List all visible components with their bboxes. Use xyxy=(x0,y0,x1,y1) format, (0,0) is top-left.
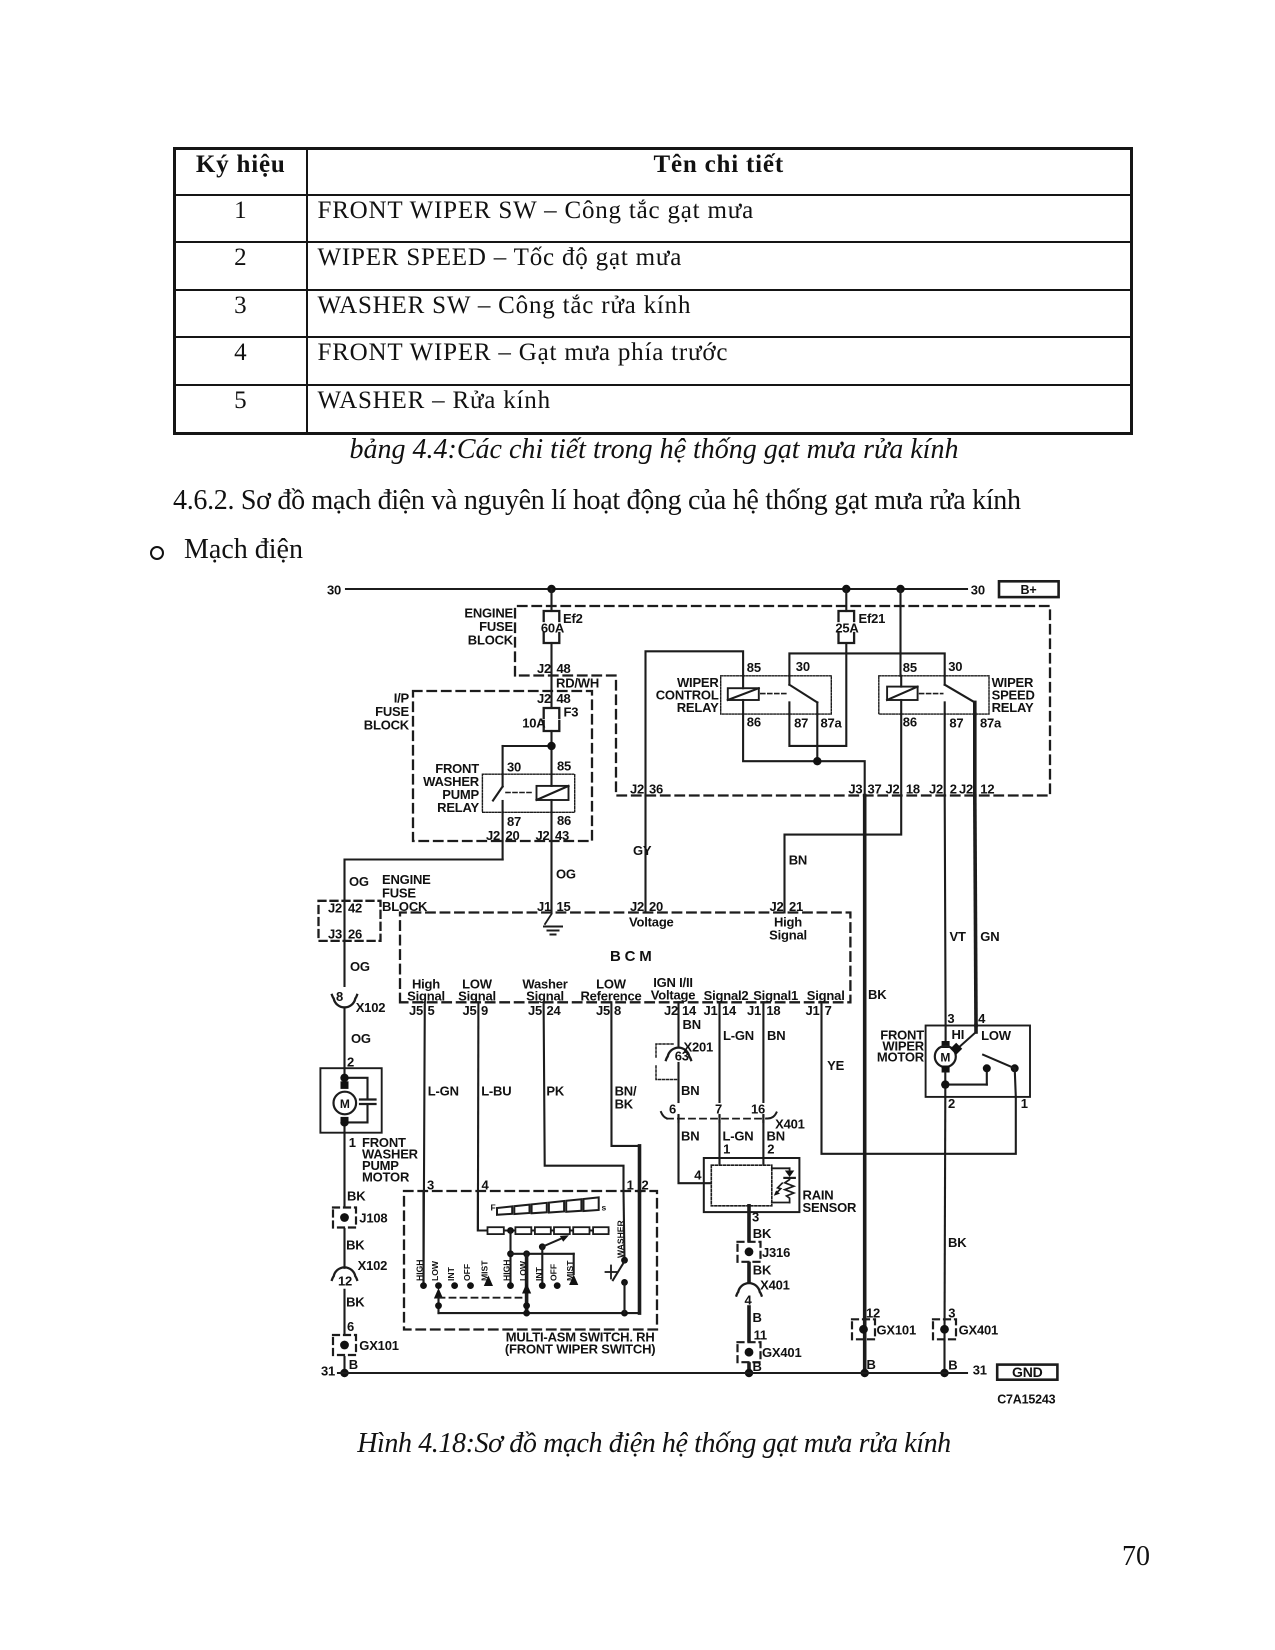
svg-text:86: 86 xyxy=(747,715,761,730)
svg-text:2: 2 xyxy=(948,1096,955,1111)
connector X401 pin 4 xyxy=(736,1278,789,1308)
wire BK pump motor pin 1 to J108 xyxy=(345,1133,367,1206)
splice GX401 right xyxy=(933,1319,998,1339)
svg-text:42: 42 xyxy=(348,901,362,916)
svg-text:X401: X401 xyxy=(760,1278,790,1293)
BCM pin J1-18 Signal1 xyxy=(747,988,798,1018)
svg-text:86: 86 xyxy=(557,813,571,828)
svg-text:J2: J2 xyxy=(929,782,943,797)
BCM pin J5-8 LOW Reference xyxy=(580,977,641,1019)
svg-text:HIGH: HIGH xyxy=(502,1260,512,1281)
washer switch label xyxy=(616,1219,626,1258)
svg-text:RELAY: RELAY xyxy=(677,700,719,715)
svg-text:Signal: Signal xyxy=(807,988,845,1003)
svg-text:OG: OG xyxy=(350,959,370,974)
wiper arm blade with arrow xyxy=(539,1235,569,1250)
svg-text:J108: J108 xyxy=(359,1211,387,1226)
engine fuse block (upper) dashed outline xyxy=(464,606,1050,796)
svg-text:MOTOR: MOTOR xyxy=(877,1050,925,1065)
wire speed relay 86 to J2-18 xyxy=(900,714,902,795)
svg-text:31: 31 xyxy=(973,1363,987,1378)
svg-text:36: 36 xyxy=(649,782,663,797)
svg-text:4: 4 xyxy=(978,1011,986,1026)
caption table xyxy=(0,434,1275,466)
table: parts list xyxy=(173,147,1133,435)
multi-asm switch dashed outline xyxy=(404,1191,657,1357)
svg-text:87: 87 xyxy=(794,716,808,731)
fuse Ef2 60A xyxy=(541,611,583,643)
pin J2-21 High Signal xyxy=(769,899,807,943)
svg-text:1: 1 xyxy=(1021,1096,1028,1111)
pin J3-37 xyxy=(848,782,881,797)
svg-text:4: 4 xyxy=(482,1178,490,1193)
svg-text:GND: GND xyxy=(1012,1364,1043,1380)
GND terminal box xyxy=(997,1364,1057,1380)
svg-text:J2: J2 xyxy=(486,828,500,843)
svg-text:12: 12 xyxy=(980,782,994,797)
svg-text:5: 5 xyxy=(428,1003,435,1018)
connector X201 pin 63 xyxy=(656,1040,713,1080)
svg-text:B: B xyxy=(753,1359,762,1374)
bullet item xyxy=(150,546,164,560)
wire BN J1-18 to rain sensor pin 2 xyxy=(763,1002,785,1165)
pin J2-36 xyxy=(630,782,663,797)
svg-text:GN: GN xyxy=(980,929,999,944)
B+ terminal box xyxy=(999,581,1059,597)
svg-text:6: 6 xyxy=(347,1319,354,1334)
wires washer relay 87/86 to J2-20 J2-43 xyxy=(486,812,569,912)
wiper speed relay xyxy=(879,659,1035,731)
svg-text:LOW: LOW xyxy=(981,1028,1012,1043)
left OFF contact xyxy=(467,1282,474,1289)
fuse F3 10A xyxy=(522,705,578,732)
BCM pin J1-7 Signal xyxy=(805,988,844,1018)
connector X401 row pins 6 7 16 xyxy=(661,1102,805,1132)
wire B GX401 to ground bus right xyxy=(945,1340,958,1373)
svg-text:12: 12 xyxy=(338,1274,352,1289)
svg-text:48: 48 xyxy=(557,661,571,676)
svg-text:B: B xyxy=(753,1310,762,1325)
junction on bus to Ef2 xyxy=(547,585,555,593)
left INT contact xyxy=(451,1282,458,1289)
svg-text:LOW: LOW xyxy=(518,1260,528,1281)
svg-text:B: B xyxy=(867,1357,876,1372)
svg-text:J5: J5 xyxy=(462,1003,476,1018)
pin J2-18 xyxy=(885,782,920,797)
svg-text:J2: J2 xyxy=(959,782,973,797)
svg-text:B: B xyxy=(349,1357,358,1372)
junction left chain ground bus xyxy=(340,1369,348,1377)
svg-text:20: 20 xyxy=(506,828,520,843)
diagram id C7A15243 xyxy=(997,1393,1055,1407)
node 31 / GND bus xyxy=(321,1363,987,1379)
svg-text:OFF: OFF xyxy=(462,1264,472,1281)
svg-text:BN: BN xyxy=(681,1129,699,1144)
splice GX101 on BK wire xyxy=(852,1306,916,1373)
svg-text:Signal2: Signal2 xyxy=(704,988,749,1003)
pin J2-2 xyxy=(929,782,957,797)
svg-text:87: 87 xyxy=(949,716,963,731)
svg-text:15: 15 xyxy=(557,899,571,914)
svg-text:GY: GY xyxy=(633,843,652,858)
svg-text:BK: BK xyxy=(615,1097,634,1112)
svg-text:J2: J2 xyxy=(630,899,644,914)
front wiper motor xyxy=(877,1011,1030,1111)
pin J1-15 with ground symbol xyxy=(537,899,571,935)
svg-text:24: 24 xyxy=(547,1003,562,1018)
switch pin 2 label xyxy=(642,1178,649,1193)
svg-text:8: 8 xyxy=(336,989,343,1004)
svg-text:18: 18 xyxy=(766,1003,780,1018)
svg-text:MOTOR: MOTOR xyxy=(362,1170,410,1185)
junction cap bottom xyxy=(340,1118,348,1126)
svg-text:8: 8 xyxy=(614,1003,621,1018)
wire F3 to washer relay pins 30/85 xyxy=(503,731,552,774)
svg-text:BK: BK xyxy=(868,987,887,1002)
svg-text:Voltage: Voltage xyxy=(651,988,696,1003)
svg-text:6: 6 xyxy=(669,1102,676,1117)
switch pin 1 label xyxy=(627,1178,634,1193)
svg-text:RELAY: RELAY xyxy=(992,700,1034,715)
svg-text:9: 9 xyxy=(481,1003,488,1018)
wire B GX101 to ground bus left xyxy=(345,1357,358,1373)
switch pin 3 wire and HIGH contact xyxy=(420,1178,434,1290)
svg-text:OG: OG xyxy=(351,1031,371,1046)
svg-text:1: 1 xyxy=(349,1135,356,1150)
contact pad rail xyxy=(488,1227,609,1234)
wire L-BU J5-9 to switch pin 4 xyxy=(478,1002,512,1230)
wire speed relay 87 to J2-2 xyxy=(944,714,946,795)
svg-text:85: 85 xyxy=(557,759,571,774)
svg-text:L-GN: L-GN xyxy=(723,1028,754,1043)
wire L-GN J1-14 to rain sensor pin 1 xyxy=(720,1002,754,1165)
wire BK X102-12 to GX101 xyxy=(345,1290,366,1334)
junction right chain ground bus xyxy=(940,1369,948,1377)
wire BN X201 to X401 pin 6 xyxy=(679,1063,700,1102)
svg-text:87a: 87a xyxy=(821,716,843,731)
svg-text:INT: INT xyxy=(446,1266,456,1281)
svg-text:J2: J2 xyxy=(328,901,342,916)
wire OG washer relay 87 to washer pump motor xyxy=(345,860,503,987)
svg-text:J2: J2 xyxy=(535,828,549,843)
svg-text:30: 30 xyxy=(327,583,341,598)
svg-text:J5: J5 xyxy=(596,1003,610,1018)
svg-text:86: 86 xyxy=(903,715,917,730)
wire bus to fuse Ef2 xyxy=(550,589,552,611)
figure caption xyxy=(0,1428,1275,1460)
BCM pin J5-5 High Signal xyxy=(407,977,445,1019)
svg-text:10A: 10A xyxy=(522,716,546,731)
wire BK J316 to X401 pin 4 xyxy=(749,1263,772,1282)
svg-text:BN: BN xyxy=(683,1017,701,1032)
svg-text:3: 3 xyxy=(947,1011,954,1026)
svg-text:2: 2 xyxy=(767,1142,774,1157)
svg-text:3: 3 xyxy=(427,1178,434,1193)
BCM pin J5-9 LOW Signal xyxy=(458,977,496,1019)
svg-text:BN: BN xyxy=(789,853,807,868)
front washer pump relay xyxy=(423,759,575,830)
svg-text:J2: J2 xyxy=(769,899,783,914)
splice GX401 center xyxy=(738,1342,802,1362)
svg-text:J2: J2 xyxy=(664,1003,678,1018)
svg-text:63: 63 xyxy=(675,1049,689,1064)
svg-text:(FRONT WIPER SWITCH): (FRONT WIPER SWITCH) xyxy=(505,1342,656,1357)
front washer pump motor xyxy=(320,1068,418,1184)
wire RD/WH J2-48 to fuse F3 xyxy=(537,676,599,709)
pin J2-20 Voltage xyxy=(629,899,674,930)
wire bus to speed relay 85 xyxy=(899,589,901,676)
wiring diagram xyxy=(0,560,1275,1420)
center OFF contact xyxy=(554,1282,561,1289)
switch pin 4 wire to cam follower rail xyxy=(478,1178,490,1231)
center MIST contact xyxy=(569,1254,578,1285)
BCM pin J2-14 IGN I/II Voltage xyxy=(651,975,697,1018)
svg-text:HI: HI xyxy=(952,1027,965,1042)
engine fuse block (left connector box) dashed outline xyxy=(319,872,432,942)
svg-text:18: 18 xyxy=(906,782,920,797)
splice J108 xyxy=(333,1208,387,1228)
svg-text:M: M xyxy=(940,1051,950,1065)
svg-text:11: 11 xyxy=(754,1328,767,1343)
svg-text:J1: J1 xyxy=(537,899,551,914)
svg-text:RELAY: RELAY xyxy=(437,800,479,815)
wire speed relay 87a to J2-12 xyxy=(973,714,977,795)
svg-text:BLOCK: BLOCK xyxy=(468,633,514,648)
wire BK J108 to X102-12 xyxy=(345,1229,366,1268)
svg-text:J1: J1 xyxy=(703,1003,717,1018)
svg-text:25A: 25A xyxy=(835,621,859,636)
svg-text:BN: BN xyxy=(681,1083,699,1098)
washer switch xyxy=(606,1191,628,1313)
node 30 / B+ bus xyxy=(327,583,985,598)
svg-text:Voltage: Voltage xyxy=(629,915,674,930)
svg-text:MIST: MIST xyxy=(565,1260,575,1281)
connector X102 pin 8 xyxy=(332,989,385,1015)
svg-text:Signal: Signal xyxy=(526,989,564,1004)
svg-text:WASHER: WASHER xyxy=(616,1219,626,1258)
svg-text:J3: J3 xyxy=(328,927,342,942)
svg-text:BK: BK xyxy=(346,1238,365,1253)
center INT contact xyxy=(539,1247,546,1289)
wire BN J2-18 to BCM J2-21 xyxy=(785,796,902,913)
svg-text:MIST: MIST xyxy=(480,1260,490,1281)
svg-text:30: 30 xyxy=(507,760,521,775)
svg-text:Ef21: Ef21 xyxy=(859,611,886,626)
svg-text:Signal: Signal xyxy=(407,989,445,1004)
BCM pin J5-24 Washer Signal xyxy=(522,977,567,1019)
svg-text:VT: VT xyxy=(950,929,966,944)
center LOW path thick xyxy=(522,1254,531,1313)
svg-text:B: B xyxy=(948,1358,957,1373)
switch pin 2 internal wire thick xyxy=(638,1191,642,1313)
wire OG label near washer relay xyxy=(556,867,576,882)
svg-text:SENSOR: SENSOR xyxy=(803,1200,858,1215)
svg-text:14: 14 xyxy=(722,1003,737,1018)
wire B X401-4 to GX401 xyxy=(749,1307,767,1343)
svg-text:J2: J2 xyxy=(630,782,644,797)
rain sensor xyxy=(704,1158,857,1215)
svg-text:J2: J2 xyxy=(537,661,551,676)
connector X102 pin 12 xyxy=(332,1258,387,1289)
pin J2-12 xyxy=(959,782,994,797)
junction rain chain on ground bus xyxy=(745,1369,753,1377)
wire BN/BK J5-8 to switch pin 2 xyxy=(611,1002,639,1191)
switch position labels left group xyxy=(415,1260,490,1281)
svg-text:C7A15243: C7A15243 xyxy=(997,1393,1055,1407)
svg-text:GX101: GX101 xyxy=(359,1338,398,1353)
svg-text:GX101: GX101 xyxy=(877,1322,916,1337)
wire 30-30 rail between relays xyxy=(789,653,944,675)
svg-text:BK: BK xyxy=(753,1226,772,1241)
junction on bus to wiper speed relay 85 xyxy=(896,585,904,593)
wire VT J2-2 to wiper motor pin 3 xyxy=(945,796,966,1026)
junction on bus to Ef21 xyxy=(842,585,850,593)
svg-text:60A: 60A xyxy=(541,621,565,636)
switch position labels center group xyxy=(502,1260,576,1281)
wire B GX401 to ground bus xyxy=(749,1359,762,1374)
svg-text:B+: B+ xyxy=(1021,583,1037,597)
svg-text:26: 26 xyxy=(348,927,362,942)
svg-text:BK: BK xyxy=(347,1189,366,1204)
svg-text:B C M: B C M xyxy=(610,948,652,965)
wire control relay 85 feed from J2-36 net xyxy=(646,651,744,795)
svg-text:J316: J316 xyxy=(762,1245,790,1260)
svg-text:37: 37 xyxy=(868,782,882,797)
svg-text:Signal: Signal xyxy=(769,928,807,943)
svg-text:30: 30 xyxy=(971,583,985,598)
svg-text:LOW: LOW xyxy=(430,1260,440,1281)
svg-text:Reference: Reference xyxy=(580,989,641,1004)
svg-text:1: 1 xyxy=(627,1178,634,1193)
svg-text:2: 2 xyxy=(950,782,957,797)
svg-text:HIGH: HIGH xyxy=(415,1260,425,1281)
wire BN X401-6 to rain sensor pin 4 xyxy=(679,1116,712,1183)
svg-text:3: 3 xyxy=(752,1210,759,1225)
left MIST contact xyxy=(484,1276,493,1287)
svg-text:s: s xyxy=(602,1203,607,1213)
svg-text:J3: J3 xyxy=(848,782,862,797)
svg-text:4: 4 xyxy=(694,1168,702,1183)
switch common bottom rail xyxy=(439,1310,640,1317)
svg-text:Signal1: Signal1 xyxy=(753,988,798,1003)
svg-text:PK: PK xyxy=(546,1084,564,1099)
svg-text:GX401: GX401 xyxy=(762,1345,801,1360)
svg-text:J1: J1 xyxy=(805,1003,819,1018)
splice GX101 left xyxy=(333,1335,399,1355)
ganged linkage dashed xyxy=(439,1297,527,1299)
svg-text:J5: J5 xyxy=(409,1003,423,1018)
svg-text:30: 30 xyxy=(948,659,962,674)
svg-text:BK: BK xyxy=(948,1235,967,1250)
svg-text:Ef2: Ef2 xyxy=(563,611,583,626)
wire L-GN J5-5 to switch pin 3 xyxy=(424,1002,459,1285)
svg-text:BK: BK xyxy=(753,1263,772,1278)
svg-text:85: 85 xyxy=(903,660,917,675)
I/P fuse block dashed outline xyxy=(364,691,592,842)
wire control relay 86 and 87a to J3-37 xyxy=(743,714,865,795)
svg-text:BN: BN xyxy=(767,1028,785,1043)
svg-text:1: 1 xyxy=(723,1142,730,1157)
svg-text:J1: J1 xyxy=(747,1003,761,1018)
svg-text:87: 87 xyxy=(507,814,521,829)
svg-text:21: 21 xyxy=(789,899,803,914)
svg-text:BLOCK: BLOCK xyxy=(364,718,410,733)
wire BK J3-37 to ground bus xyxy=(865,796,887,1374)
svg-text:14: 14 xyxy=(682,1003,697,1018)
page number xyxy=(1122,1541,1150,1573)
junction 86/87a xyxy=(813,757,821,765)
wire BN J2-14 to X201 xyxy=(679,1002,701,1046)
fuse Ef21 25A xyxy=(835,589,885,643)
svg-text:87a: 87a xyxy=(980,716,1002,731)
junction cap top xyxy=(340,1074,348,1082)
svg-text:J5: J5 xyxy=(528,1003,542,1018)
svg-text:RD/WH: RD/WH xyxy=(556,676,599,691)
wire BK rain sensor pin 3 to J316 xyxy=(749,1206,772,1241)
svg-text:INT: INT xyxy=(534,1266,544,1281)
svg-text:31: 31 xyxy=(321,1364,335,1379)
center contact bus xyxy=(507,1231,574,1290)
svg-text:J2: J2 xyxy=(885,782,899,797)
cam profile xyxy=(491,1197,607,1214)
svg-text:F3: F3 xyxy=(564,705,579,720)
svg-text:7: 7 xyxy=(825,1003,832,1018)
svg-text:OG: OG xyxy=(349,874,369,889)
wire YE J1-7 to wiper motor pin 1 xyxy=(822,1002,1016,1154)
section heading xyxy=(173,485,1021,517)
svg-text:OFF: OFF xyxy=(549,1264,559,1281)
svg-text:OG: OG xyxy=(556,867,576,882)
svg-text:30: 30 xyxy=(796,659,810,674)
junction BK chain ground bus xyxy=(861,1369,869,1377)
svg-text:L-GN: L-GN xyxy=(428,1084,459,1099)
wire PK J5-24 to switch pin 1 xyxy=(544,1002,624,1191)
BCM dashed outline xyxy=(400,913,850,1003)
svg-text:YE: YE xyxy=(827,1058,844,1073)
wire Ef21 to wiper control relay 87 xyxy=(789,643,846,746)
svg-text:X102: X102 xyxy=(356,1000,386,1015)
svg-text:43: 43 xyxy=(555,828,569,843)
wire GY J2-36 to BCM J2-20 xyxy=(633,796,652,913)
svg-text:X102: X102 xyxy=(358,1258,388,1273)
svg-text:2: 2 xyxy=(642,1178,649,1193)
left LOW contact chain xyxy=(434,1282,443,1313)
wire GN J2-12 to wiper motor pin 4 xyxy=(975,796,1000,1026)
junction pad rail xyxy=(507,1227,514,1234)
splice J316 xyxy=(738,1242,791,1262)
junction motor pin2 xyxy=(941,1080,949,1088)
wiper control relay xyxy=(656,659,843,731)
svg-text:Signal: Signal xyxy=(458,989,496,1004)
svg-text:J2: J2 xyxy=(537,691,551,706)
BCM pin J1-14 Signal2 xyxy=(703,988,748,1018)
svg-text:F: F xyxy=(491,1203,496,1213)
svg-text:85: 85 xyxy=(747,660,761,675)
wire BK motor pin 2 to GX401 xyxy=(945,1097,968,1341)
svg-text:20: 20 xyxy=(649,899,663,914)
svg-text:M: M xyxy=(340,1097,350,1111)
svg-text:L-BU: L-BU xyxy=(481,1084,511,1099)
junction F3 output xyxy=(547,742,555,750)
svg-text:BK: BK xyxy=(346,1295,365,1310)
wire Ef2 to J2-48 xyxy=(537,643,571,691)
wire OG below X102 to pump motor pin 2 xyxy=(345,1008,371,1070)
svg-text:GX401: GX401 xyxy=(959,1322,998,1337)
